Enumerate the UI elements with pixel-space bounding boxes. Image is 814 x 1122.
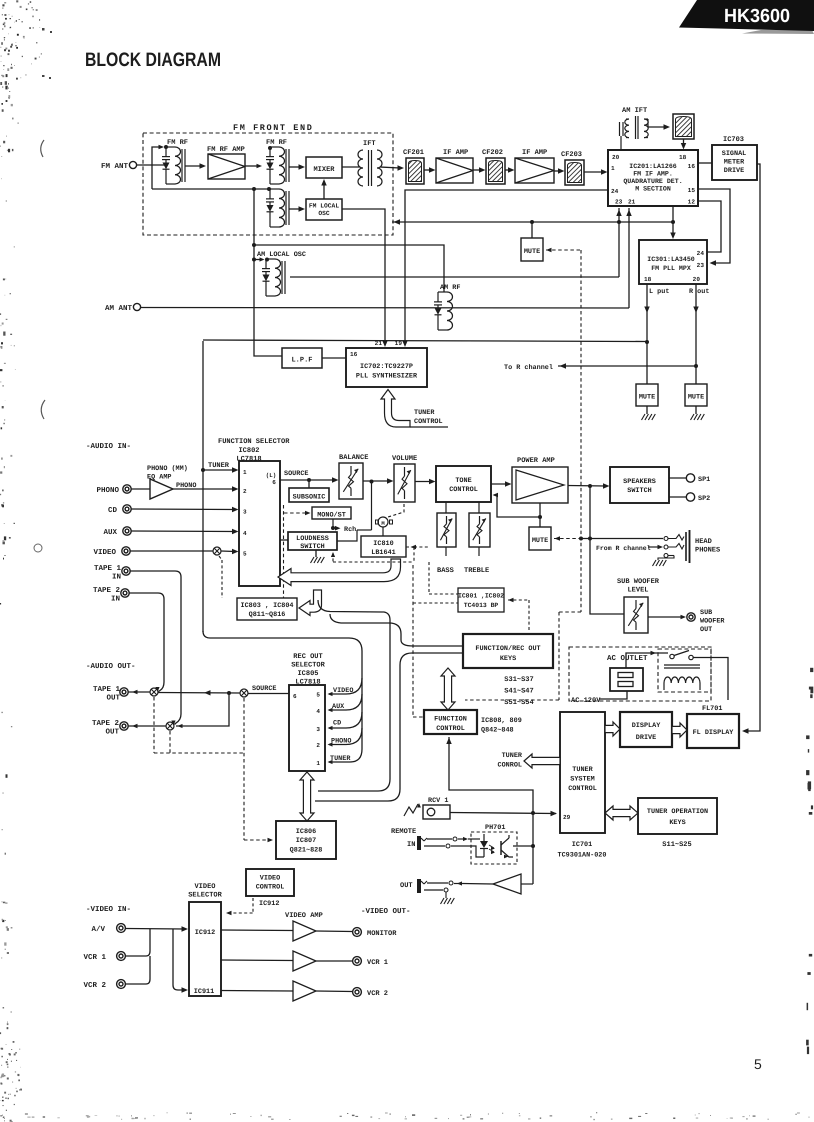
svg-text:TC9301AN-020: TC9301AN-020 xyxy=(558,852,607,860)
wire source branch to SUBSONIC xyxy=(308,480,310,488)
dashed stub into MONO/ST xyxy=(284,512,308,514)
wire SIGNAL METER DRIVE to FL DISPLAY (right bus) xyxy=(745,164,760,731)
ground under LOUDNESS SWITCH xyxy=(315,550,317,557)
wire source node to rec-out pin6 xyxy=(248,693,289,695)
svg-text:SIGNAL: SIGNAL xyxy=(722,150,746,158)
AC outlet socket xyxy=(610,668,643,691)
wire comb stub to pin 5 xyxy=(329,678,362,694)
svg-text:19: 19 xyxy=(395,340,403,347)
wire amp1 to MONITOR xyxy=(316,930,352,933)
pot TREBLE xyxy=(478,502,480,513)
svg-text:TUNER: TUNER xyxy=(208,462,230,470)
wire IC201 pin 15 to IC301 pin 23 xyxy=(698,189,730,263)
dashed control into function control xyxy=(412,565,414,717)
wire AM antenna line xyxy=(141,307,629,310)
wire from R channel arrow xyxy=(648,546,660,548)
svg-text:R out: R out xyxy=(689,288,709,296)
wire sweep line C (keys upper) xyxy=(330,614,463,646)
svg-text:IN: IN xyxy=(111,596,120,604)
wire AM RF top feed xyxy=(254,245,444,292)
svg-text:VCR 2: VCR 2 xyxy=(367,990,388,998)
wire RCV1 to tuner system control pin 29 xyxy=(450,813,556,814)
wire EQ amp to selector pin 2 xyxy=(173,488,235,490)
wire AGC line to FM front end xyxy=(392,221,673,223)
svg-text:-VIDEO OUT-: -VIDEO OUT- xyxy=(361,907,411,916)
svg-text:4: 4 xyxy=(316,708,320,715)
svg-text:IC911: IC911 xyxy=(194,988,214,996)
block SPEAKERS SWITCH xyxy=(610,467,669,503)
svg-text:IC912: IC912 xyxy=(195,929,215,937)
svg-text:IC802: IC802 xyxy=(238,447,259,455)
wire AM IFT left leg to IC201 pin 20 xyxy=(620,136,622,150)
svg-text:BLOCK DIAGRAM: BLOCK DIAGRAM xyxy=(85,49,221,71)
svg-text:CONTROL: CONTROL xyxy=(568,785,597,793)
svg-text:1: 1 xyxy=(316,760,320,767)
wire balance to volume xyxy=(363,480,390,482)
svg-text:16: 16 xyxy=(350,351,358,358)
svg-text:WOOFER: WOOFER xyxy=(700,618,725,626)
wire loudness to Rch tap xyxy=(337,530,357,541)
svg-text:24: 24 xyxy=(611,188,619,195)
svg-text:RCV 1: RCV 1 xyxy=(428,797,448,805)
wire PH701 output to remote bus xyxy=(513,845,533,847)
hollow arrow TUNER CONTROL into IC702 xyxy=(381,390,410,428)
svg-text:AM LOCAL OSC: AM LOCAL OSC xyxy=(257,251,306,259)
svg-text:SUB WOOFER: SUB WOOFER xyxy=(617,578,660,586)
svg-text:3: 3 xyxy=(316,726,320,733)
ceramic filter CF201 xyxy=(406,158,424,184)
svg-text:TAPE 2: TAPE 2 xyxy=(92,719,120,728)
wire FM LOCAL OSC output to PLL pin 21 xyxy=(342,209,385,344)
svg-text:15: 15 xyxy=(688,187,696,194)
terminal FM ANT xyxy=(129,161,136,168)
block FUNCTION CONTROL xyxy=(424,710,477,734)
terminal VCR 1 out xyxy=(353,957,362,966)
block FM LOCAL OSC xyxy=(306,199,342,220)
svg-text:CONTROL: CONTROL xyxy=(414,418,443,426)
svg-text:OUT: OUT xyxy=(400,882,413,890)
wire power amp output xyxy=(568,485,606,488)
svg-text:IC803 , IC804: IC803 , IC804 xyxy=(240,602,293,610)
svg-text:FM FRONT END: FM FRONT END xyxy=(233,123,313,133)
wire AUX to selector pin 4 xyxy=(132,530,236,533)
wire OUT jack to amp xyxy=(427,882,448,884)
svg-text:IFT: IFT xyxy=(363,140,376,148)
ceramic filter CF203 xyxy=(565,160,584,185)
dashed AC outlet enclosure xyxy=(569,647,711,701)
svg-text:M SECTION: M SECTION xyxy=(635,186,671,193)
svg-text:HEAD: HEAD xyxy=(695,538,712,546)
wire IC201 pin 12 to IC301 pin 24 xyxy=(698,201,721,252)
svg-text:CONROL: CONROL xyxy=(498,762,522,770)
terminal A/V xyxy=(117,924,126,933)
svg-text:24: 24 xyxy=(697,250,705,257)
svg-text:MONO/ST: MONO/ST xyxy=(317,512,346,520)
svg-text:AC 120V: AC 120V xyxy=(571,697,601,705)
svg-text:2: 2 xyxy=(243,488,247,495)
block function selector IC802 LC7818 xyxy=(239,461,280,586)
wire source line to tape outs xyxy=(158,692,240,695)
svg-text:TUNER OPERATION: TUNER OPERATION xyxy=(647,808,708,816)
svg-text:VIDEO: VIDEO xyxy=(260,875,280,883)
svg-text:23: 23 xyxy=(697,262,705,269)
svg-text:VCR 1: VCR 1 xyxy=(83,953,106,962)
amplifier phono EQ xyxy=(150,479,173,499)
ground at headphone xyxy=(658,556,674,561)
svg-text:OSC: OSC xyxy=(318,210,330,217)
wire osc tank to FM LOCAL OSC xyxy=(289,208,301,210)
wire IC201 pin 24 to PLL pin 19 xyxy=(405,190,608,344)
wire comb stub to pin 2 xyxy=(329,728,362,745)
svg-text:PH701: PH701 xyxy=(485,824,505,832)
dashed tone-IC links xyxy=(428,562,430,594)
svg-text:SP1: SP1 xyxy=(698,476,710,484)
svg-text:SOURCE: SOURCE xyxy=(284,470,308,478)
block MIXER xyxy=(306,157,342,178)
block L.P.F xyxy=(282,348,322,368)
block MUTE (L) xyxy=(636,384,658,406)
node tape2 out xyxy=(166,722,174,730)
node selector pin5 dashed to IC803 xyxy=(219,556,222,560)
hollow arrow TSC to TUNER OPERATION KEYS xyxy=(605,806,638,820)
svg-text:TC4013 BP: TC4013 BP xyxy=(464,602,499,609)
power transformer xyxy=(664,664,700,666)
svg-text:20: 20 xyxy=(612,154,620,161)
wire to TAPE 2 OUT xyxy=(129,725,167,727)
svg-text:OUT: OUT xyxy=(105,728,119,737)
terminal SUB WOOFER OUT xyxy=(687,613,695,621)
svg-text:CF203: CF203 xyxy=(561,151,582,159)
wire CD to selector pin 3 xyxy=(132,508,236,511)
svg-text:SUBSONIC: SUBSONIC xyxy=(293,494,326,502)
svg-text:20: 20 xyxy=(693,276,701,283)
wire FM RF bypass loop xyxy=(152,147,160,165)
wire tuner line to selector pin 1 xyxy=(203,469,235,471)
IC U301 IC301:LA3450 FM PLL MPX xyxy=(639,240,707,284)
svg-text:IC806: IC806 xyxy=(296,828,316,836)
svg-text:12: 12 xyxy=(688,199,696,206)
svg-text:Q842~848: Q842~848 xyxy=(481,727,514,735)
wire M to IC810 xyxy=(382,527,384,536)
ceramic filter (AM detector) xyxy=(673,114,694,139)
wire IC301 pin 20 (R) down to mute xyxy=(695,284,697,384)
terminal TAPE 1 IN xyxy=(122,567,130,575)
svg-text:TUNER: TUNER xyxy=(502,752,523,760)
svg-text:3: 3 xyxy=(243,509,247,516)
svg-text:IC807: IC807 xyxy=(296,837,316,845)
svg-text:CF202: CF202 xyxy=(482,149,503,157)
svg-text:MUTE: MUTE xyxy=(639,394,655,402)
svg-text:METER: METER xyxy=(724,159,745,167)
svg-text:QUADRATURE DET.: QUADRATURE DET. xyxy=(623,178,682,185)
stub under BASS xyxy=(445,547,447,556)
wire IF AMP 1 to CF202 xyxy=(473,169,482,171)
wire MONO/ST to Rch xyxy=(332,519,334,528)
hollow arrow TUNER CONROL xyxy=(524,754,560,768)
wire volume to tone control xyxy=(415,481,432,483)
svg-text:SOURCE: SOURCE xyxy=(252,685,276,693)
terminal CD xyxy=(123,505,131,513)
block IC803 IC804 Q811-Q816 xyxy=(237,598,297,620)
ceramic filter CF202 xyxy=(486,158,505,184)
block IC801 IC802 TC4013 BP xyxy=(458,588,504,612)
svg-text:TUNER: TUNER xyxy=(414,409,435,417)
block LOUDNESS SWITCH xyxy=(288,532,337,550)
svg-text:FUNCTION/REC OUT: FUNCTION/REC OUT xyxy=(475,645,540,653)
svg-text:IN: IN xyxy=(407,841,415,849)
terminal TAPE 1 OUT xyxy=(120,688,128,696)
svg-text:AM IFT: AM IFT xyxy=(622,107,647,115)
hollow arrow DISPLAY DRIVE to FL DISPLAY xyxy=(672,723,687,737)
svg-text:(L): (L) xyxy=(266,472,276,479)
wire tone to power amp xyxy=(491,483,508,485)
IC U702 IC702:TC9227P PLL SYNTHESIZER xyxy=(346,348,427,387)
svg-text:SP2: SP2 xyxy=(698,495,710,503)
svg-text:FL701: FL701 xyxy=(702,705,722,713)
terminal VCR 2 out xyxy=(353,988,362,997)
margin artifacts xyxy=(41,140,44,157)
svg-text:CF201: CF201 xyxy=(403,149,424,157)
svg-text:IC801 ,IC802: IC801 ,IC802 xyxy=(458,593,504,600)
wire comb stub to pin 3 xyxy=(329,712,362,728)
svg-text:SYSTEM: SYSTEM xyxy=(570,776,594,784)
wire Rch to main line tap xyxy=(357,529,372,531)
dashed tape record select lines xyxy=(153,697,155,753)
wire To R channel xyxy=(558,365,696,367)
svg-text:21: 21 xyxy=(628,199,636,206)
svg-text:Q811~Q816: Q811~Q816 xyxy=(249,611,286,619)
svg-text:29: 29 xyxy=(563,814,571,821)
dashed loudness control run xyxy=(413,547,415,562)
FM front end dashed enclosure xyxy=(143,133,393,235)
optocoupler phototransistor xyxy=(500,841,502,855)
svg-text:MUTE: MUTE xyxy=(688,394,704,402)
svg-text:Rch: Rch xyxy=(344,526,356,534)
svg-text:AM ANT: AM ANT xyxy=(105,305,133,313)
wire to TAPE 1 OUT xyxy=(129,691,151,693)
terminal VCR 2 in xyxy=(117,980,126,989)
svg-text:6: 6 xyxy=(293,693,297,700)
terminal SP1 xyxy=(669,477,686,479)
wire switch to transformer xyxy=(693,658,728,701)
wire left channel to headphones xyxy=(581,538,663,540)
pot BASS xyxy=(445,502,447,513)
svg-text:TAPE 2: TAPE 2 xyxy=(93,586,121,595)
amplifier POWER AMP xyxy=(512,467,568,503)
svg-text:CONTROL: CONTROL xyxy=(256,884,285,892)
svg-text:FM ANT: FM ANT xyxy=(101,163,129,171)
svg-text:IC912: IC912 xyxy=(259,900,279,908)
svg-text:To R channel: To R channel xyxy=(504,364,553,372)
node video/selector pin5 xyxy=(213,547,221,555)
svg-text:PHONO (MM): PHONO (MM) xyxy=(147,465,188,473)
dashed mute control bus (vertical) xyxy=(580,250,582,612)
svg-text:IC703: IC703 xyxy=(723,136,744,144)
block TUNER OPERATION KEYS xyxy=(638,798,717,834)
svg-text:VCR 1: VCR 1 xyxy=(367,959,388,967)
svg-text:5: 5 xyxy=(243,551,247,558)
ground under MUTE L xyxy=(646,406,648,414)
svg-text:MUTE: MUTE xyxy=(524,248,540,256)
remote OUT jack xyxy=(417,879,421,893)
svg-text:-AUDIO IN-: -AUDIO IN- xyxy=(86,442,131,451)
wire IN jack contacts to PH701 xyxy=(427,838,452,840)
wire VCR2 join xyxy=(126,956,151,984)
remote IN jack xyxy=(417,836,421,850)
wire sub woofer out xyxy=(648,616,683,618)
svg-text:POWER AMP: POWER AMP xyxy=(517,457,555,465)
wire tank2 to MIXER xyxy=(289,166,301,168)
svg-text:IN: IN xyxy=(112,574,121,582)
wire AM IFT to detector filter xyxy=(648,126,666,128)
svg-text:LEVEL: LEVEL xyxy=(627,587,648,595)
dashed power transformer box xyxy=(658,649,711,692)
svg-text:AM RF: AM RF xyxy=(440,284,460,292)
amplifier video vcr2 xyxy=(293,981,316,1001)
svg-text:1: 1 xyxy=(611,165,615,172)
dashed control into IC810 xyxy=(414,546,429,548)
wire tuner line bottom run to rec-out comb xyxy=(203,631,362,762)
svg-text:IF AMP: IF AMP xyxy=(443,149,468,157)
wire CF201 to IF AMP 1 xyxy=(424,169,432,171)
svg-text:2: 2 xyxy=(316,742,320,749)
svg-text:FM LOCAL: FM LOCAL xyxy=(309,203,339,210)
wire into AM local osc xyxy=(254,259,261,261)
svg-text:S31~S37: S31~S37 xyxy=(504,676,533,684)
terminal AM ANT xyxy=(133,303,140,310)
wire LPF to IC702 pin 16 xyxy=(322,357,346,359)
block DISPLAY DRIVE xyxy=(620,712,672,747)
hollow bent arrow into IC803 xyxy=(299,590,322,616)
svg-text:DISPLAY: DISPLAY xyxy=(632,722,661,730)
svg-text:BALANCE: BALANCE xyxy=(339,454,368,462)
block IC810 LB1641 xyxy=(361,536,406,557)
svg-text:L put: L put xyxy=(649,288,669,296)
wire selector to video amp 2 xyxy=(221,959,293,962)
dashed volume to motor xyxy=(388,504,404,517)
terminal TAPE 2 OUT xyxy=(120,722,128,730)
svg-text:VIDEO: VIDEO xyxy=(93,548,116,557)
wire power amp feedback to tone control xyxy=(539,503,541,517)
block TONE CONTROL xyxy=(436,466,491,502)
svg-text:VIDEO: VIDEO xyxy=(194,883,215,891)
wire detector filter to IC201 pin 18 xyxy=(683,139,685,146)
hollow arrow TSC to DISPLAY DRIVE xyxy=(605,722,620,736)
motor M (volume) xyxy=(378,517,388,527)
wire IFT to CF201 xyxy=(380,167,400,168)
wire FM ANT to FM RF tank xyxy=(137,164,166,166)
wire remote bus to out amp xyxy=(521,883,533,885)
block IC806 IC807 Q821-828 xyxy=(276,821,336,859)
wire PHONO to EQ amp xyxy=(132,488,151,490)
svg-text:5: 5 xyxy=(316,692,320,699)
amplifier video vcr1 xyxy=(293,951,316,971)
svg-text:OUT: OUT xyxy=(700,626,712,634)
svg-text:PHONES: PHONES xyxy=(695,547,720,555)
svg-text:FUNCTION SELECTOR: FUNCTION SELECTOR xyxy=(218,438,290,446)
svg-text:16: 16 xyxy=(688,163,696,170)
svg-text:IC702:TC9227P: IC702:TC9227P xyxy=(360,363,413,371)
wire mute tap under power amp xyxy=(539,517,541,527)
wire pin 21 feed from AM line xyxy=(628,208,630,308)
amplifier video monitor xyxy=(293,921,316,941)
optocoupler light arrows xyxy=(489,845,494,848)
svg-text:FL DISPLAY: FL DISPLAY xyxy=(693,729,735,737)
wire FM RF AMP to tank2 xyxy=(245,165,258,167)
svg-text:TAPE 1: TAPE 1 xyxy=(94,565,122,573)
wire VIDEO to node xyxy=(131,550,214,552)
wire IC301 pin 18 (L) down to mute xyxy=(646,284,648,384)
svg-text:-AUDIO OUT-: -AUDIO OUT- xyxy=(86,662,136,671)
wire pin 23 feed xyxy=(618,208,620,277)
terminal VIDEO xyxy=(122,547,130,555)
svg-text:IC701: IC701 xyxy=(572,841,592,849)
svg-text:AC OUTLET: AC OUTLET xyxy=(607,654,648,663)
svg-text:KEYS: KEYS xyxy=(669,819,685,827)
terminal TAPE 2 IN xyxy=(121,589,129,597)
block SUBSONIC xyxy=(289,488,329,502)
wire amp3 to VCR2 out xyxy=(316,990,352,993)
wire TAPE 1 IN down to tape1 node xyxy=(131,571,182,725)
amplifier remote out xyxy=(493,874,521,894)
svg-text:From R channel: From R channel xyxy=(596,545,651,552)
svg-text:MONITOR: MONITOR xyxy=(367,930,397,938)
wire selector to loudness xyxy=(280,539,288,541)
IR zigzag xyxy=(404,804,418,816)
svg-text:FM RF AMP: FM RF AMP xyxy=(207,146,245,154)
pot SUB WOOFER LEVEL xyxy=(624,597,648,633)
block TUNER SYSTEM CONTROL IC701 xyxy=(560,712,605,833)
dashed into IC806 xyxy=(244,839,272,841)
power switch xyxy=(670,654,674,658)
svg-text:21: 21 xyxy=(375,340,383,347)
svg-text:4: 4 xyxy=(243,530,247,537)
svg-text:18: 18 xyxy=(644,276,652,283)
svg-text:5: 5 xyxy=(754,1056,762,1072)
wire AM local osc output xyxy=(290,276,619,278)
svg-text:AUX: AUX xyxy=(103,529,117,537)
wire sweep line A (selector to rec bus) xyxy=(318,600,390,791)
wire selector to video amp 1 xyxy=(221,929,293,932)
svg-text:MIXER: MIXER xyxy=(313,166,335,174)
wire A/V to selector xyxy=(126,928,186,931)
wire front-end lower bus xyxy=(152,188,269,190)
block FL DISPLAY xyxy=(687,714,739,748)
svg-text:IC810: IC810 xyxy=(373,540,393,548)
node tape1 out xyxy=(150,688,158,696)
svg-text:Q821~828: Q821~828 xyxy=(290,847,323,855)
svg-text:S11~S25: S11~S25 xyxy=(662,841,691,849)
wire tuner line vertical xyxy=(202,341,204,632)
svg-text:LB1641: LB1641 xyxy=(371,549,395,557)
model banner HK3600 xyxy=(742,30,814,34)
svg-text:IC805: IC805 xyxy=(297,670,318,678)
hollow bent arrow into function selector xyxy=(278,559,401,586)
wire speaker line down to sub woofer xyxy=(590,486,624,614)
svg-text:PLL SYNTHESIZER: PLL SYNTHESIZER xyxy=(356,373,418,381)
wire branch down to tape2 node xyxy=(176,693,229,726)
svg-text:VCR 2: VCR 2 xyxy=(83,981,106,990)
AM local oscillator tank xyxy=(266,258,275,260)
headphone jack contacts xyxy=(664,537,668,541)
block RCV1 receiver xyxy=(423,805,450,819)
svg-text:LC7818: LC7818 xyxy=(236,456,261,464)
node source (rec out) xyxy=(240,689,248,697)
svg-text:IC808, 809: IC808, 809 xyxy=(481,717,522,725)
svg-text:TAPE 1: TAPE 1 xyxy=(93,686,121,694)
wire IC201 pin 16 to SIGNAL METER DRIVE xyxy=(698,162,712,164)
wire L channel to function selector (TUNER) xyxy=(203,340,647,342)
